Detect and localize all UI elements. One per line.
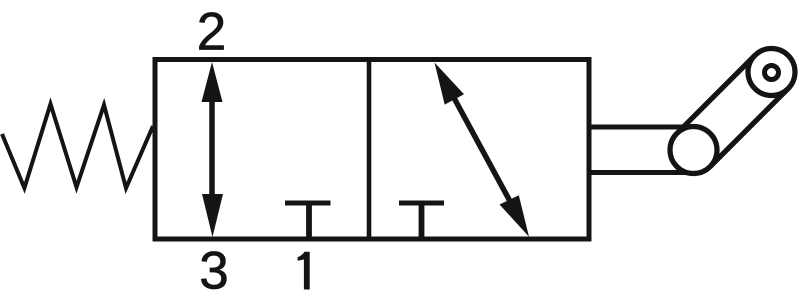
svg-text:2: 2: [197, 3, 226, 62]
svg-text:3: 3: [199, 242, 228, 300]
